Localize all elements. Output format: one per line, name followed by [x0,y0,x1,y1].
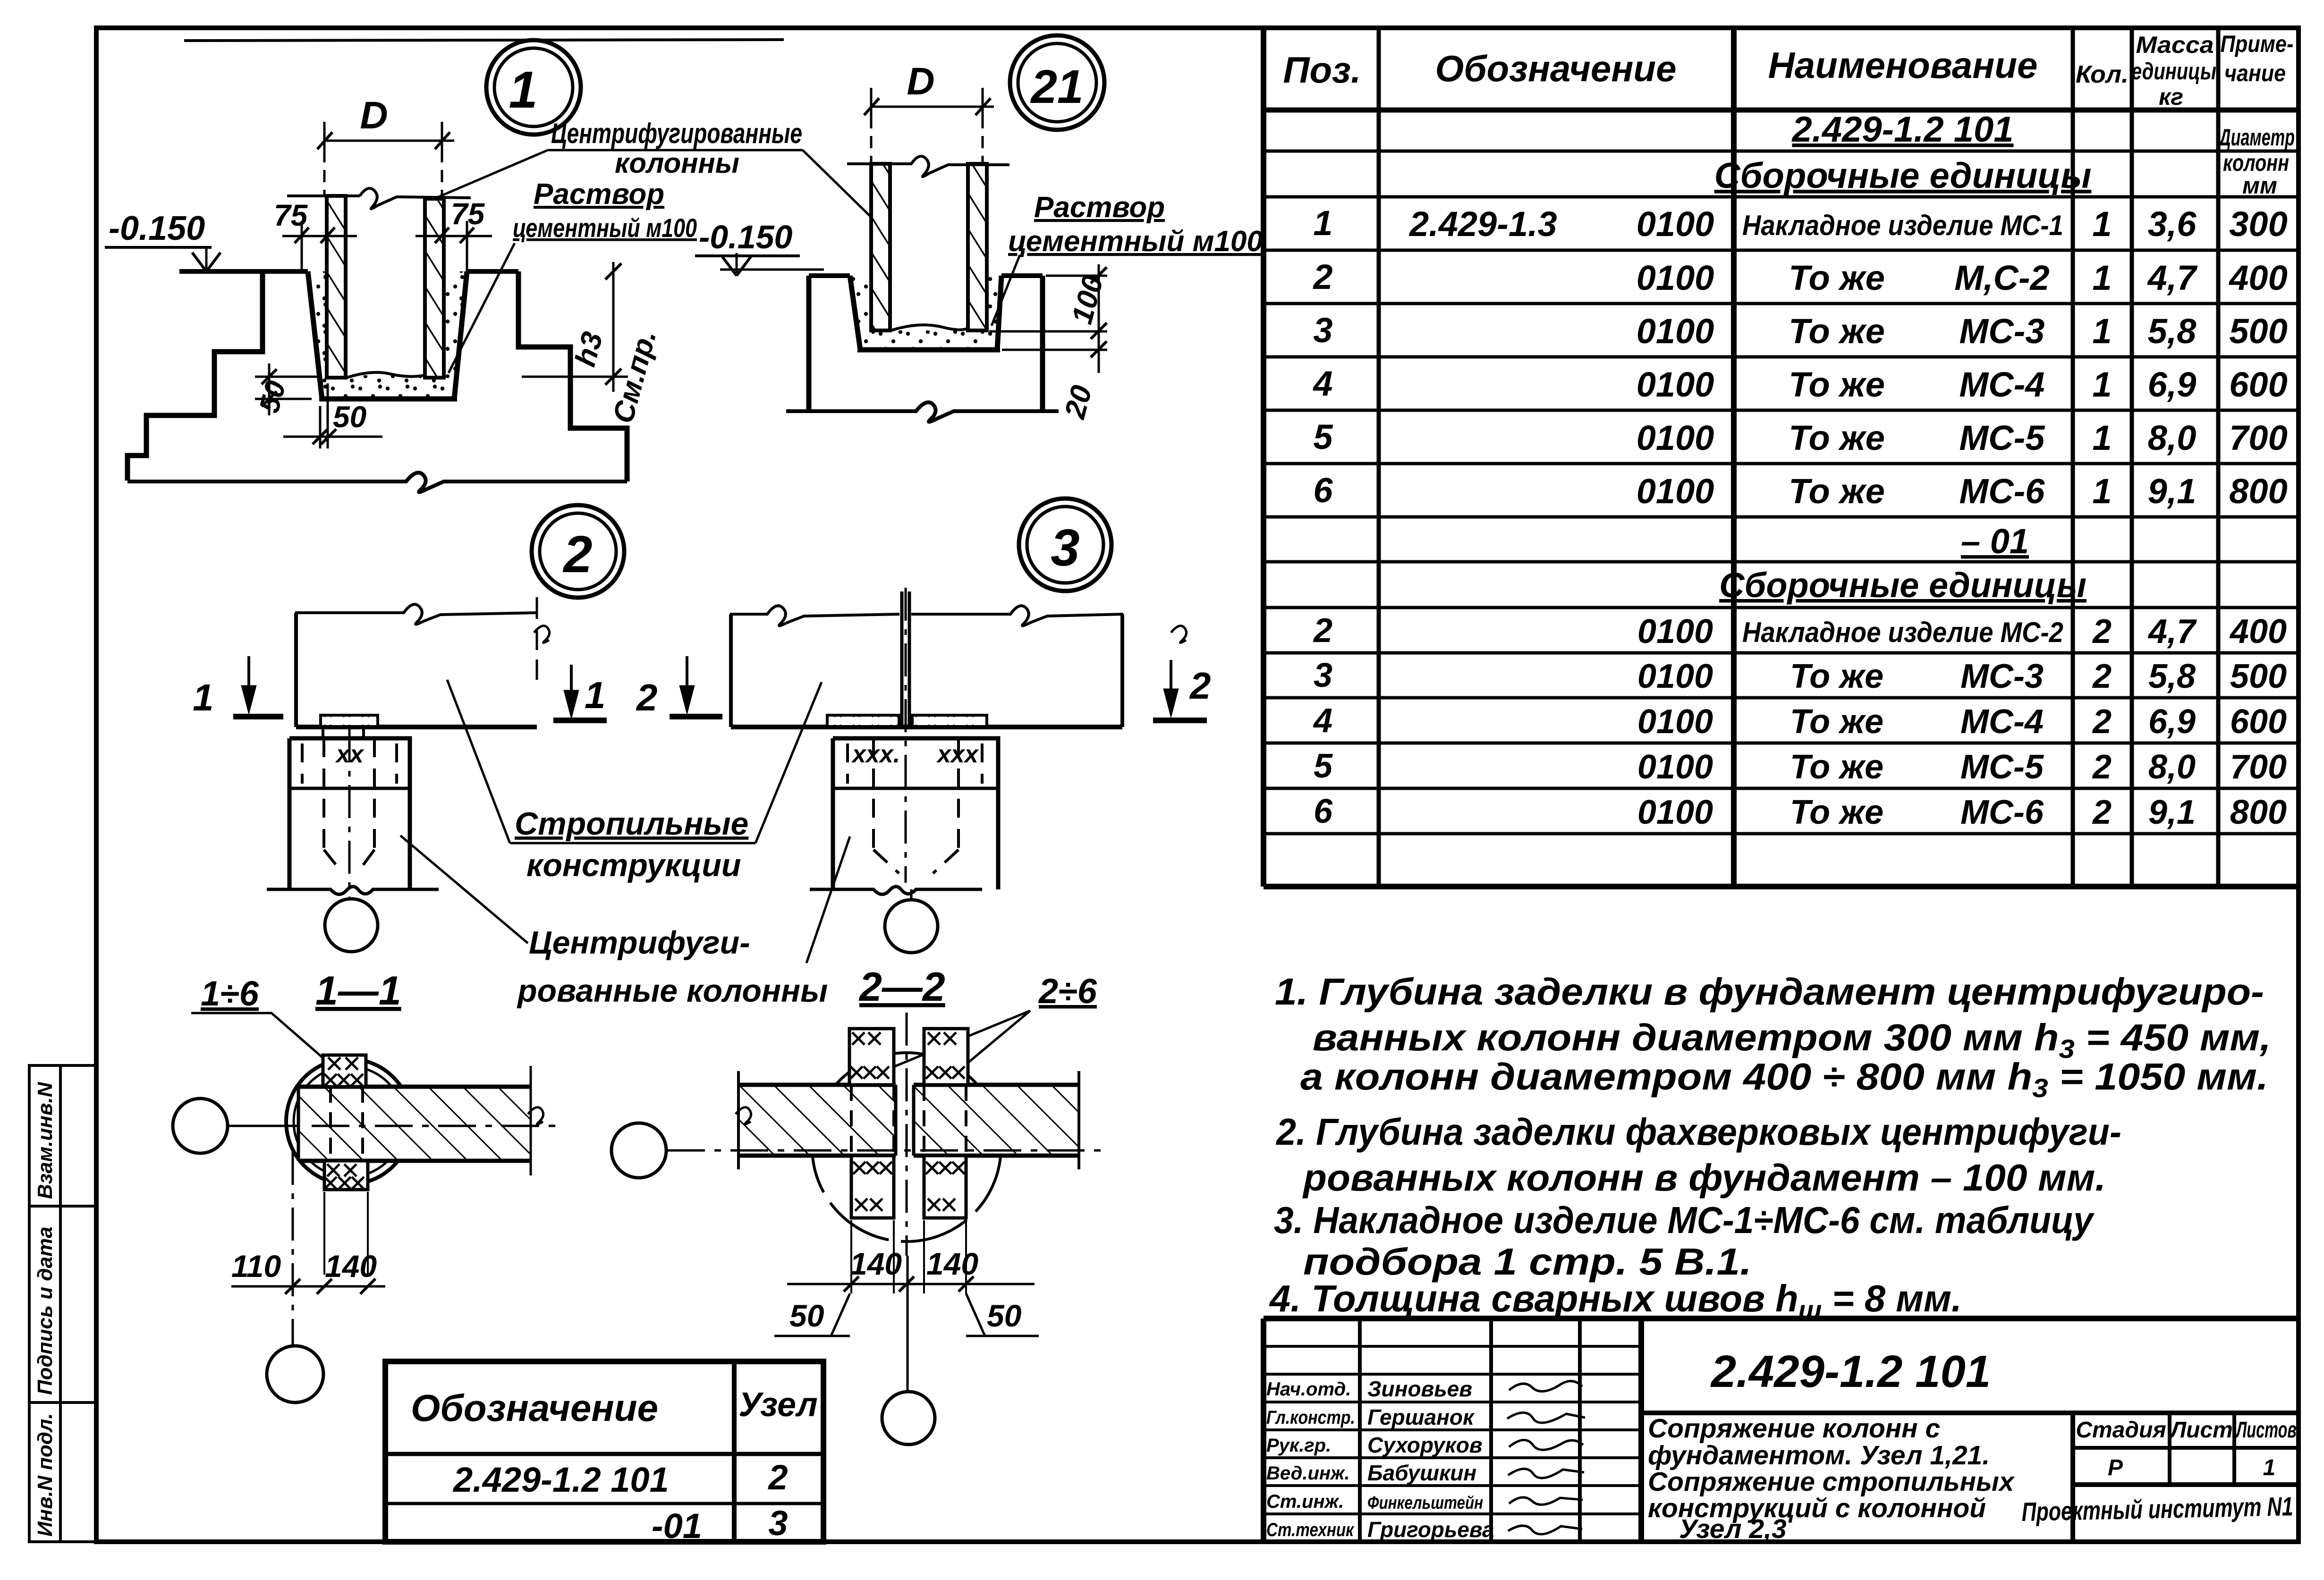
svg-text:9,1: 9,1 [2148,794,2196,831]
svg-text:1. Глубина заделки в фундамент: 1. Глубина заделки в фундамент центрифуг… [1275,971,2264,1013]
column bottom break detail 2 [267,887,439,895]
svg-text:Ст.инж.: Ст.инж. [1266,1491,1344,1512]
svg-text:2: 2 [1313,612,1332,650]
svg-text:Диаметр: Диаметр [2218,124,2295,151]
100 dimension detail 21 [989,264,1107,363]
svg-text:6: 6 [1313,471,1333,510]
svg-text:2.429-1.2 101: 2.429-1.2 101 [1710,1346,1991,1397]
foundation steps left detail 1 [127,272,263,481]
svg-text:100: 100 [1066,272,1110,328]
svg-text:5: 5 [1314,747,1333,785]
svg-text:50: 50 [333,400,366,434]
svg-text:То же: То же [1789,312,1885,351]
mortar wavy top line detail 21 [891,325,967,330]
svg-text:6: 6 [1314,793,1333,830]
svg-text:конструкции: конструкции [526,847,741,883]
plate edge dashed lines section 2-2 [851,1085,966,1156]
svg-text:600: 600 [2229,365,2287,404]
column wall right detail 21 [968,164,987,330]
svg-text:Гершанок: Гершанок [1367,1405,1475,1429]
svg-text:Раствор: Раствор [1034,191,1165,224]
svg-text:5,8: 5,8 [2148,312,2197,351]
leader right Стропильные [755,682,822,843]
svg-text:Масса: Масса [2136,32,2214,58]
75 dimension left detail 1 [282,221,357,271]
svg-text:4,7: 4,7 [2147,258,2198,297]
detail 1 bubble [486,40,581,135]
svg-text:МС-5: МС-5 [1959,418,2046,457]
svg-text:Инв.N подл.: Инв.N подл. [34,1413,57,1537]
svg-text:0100: 0100 [1637,418,1714,457]
svg-text:То же: То же [1790,703,1883,741]
column bottom break detail 3 [810,887,982,895]
column edge dashed lines section 1-1 [331,1087,363,1161]
svg-text:Бабушкин: Бабушкин [1367,1461,1476,1485]
svg-text:МС-3: МС-3 [1960,658,2044,695]
title block stage sheet headers [2076,1418,2297,1480]
svg-text:МС-5: МС-5 [1960,748,2044,786]
svg-text:1: 1 [2092,258,2112,297]
svg-text:1: 1 [2092,204,2112,244]
svg-text:Зиновьев: Зиновьев [1367,1377,1472,1401]
node reference table text [411,1386,818,1546]
svg-text:-0.150: -0.150 [699,219,793,255]
svg-text:8,0: 8,0 [2148,748,2196,786]
svg-text:1: 1 [1313,203,1332,243]
svg-text:Подпись и дата: Подпись и дата [34,1226,57,1395]
foundation bottom break line detail 1 [127,473,627,492]
svg-text:0100: 0100 [1637,472,1714,511]
svg-text:0100: 0100 [1637,365,1714,404]
column top break line detail 1 [287,188,471,209]
svg-text:0100: 0100 [1637,794,1713,831]
svg-text:2: 2 [2092,703,2112,741]
svg-text:20: 20 [1059,382,1099,422]
column wall left detail 21 [871,164,890,330]
foundation right edge detail 21 [1040,276,1045,411]
centerline to bubble section 1-1 [292,1152,294,1344]
svg-text:-01: -01 [652,1506,702,1546]
leader right колонны [806,836,850,963]
svg-text:1: 1 [2092,472,2112,511]
svg-text:фундаментом. Узел 1,21.: фундаментом. Узел 1,21. [1648,1440,1990,1470]
svg-text:рованных колонн в фундамент –: рованных колонн в фундамент – 100 мм. [1302,1157,2106,1199]
svg-text:колонны: колонны [615,147,739,179]
svg-text:Сопряжение колонн с: Сопряжение колонн с [1648,1413,1940,1444]
node reference table grid [385,1361,823,1542]
column circle section 2-2 [812,1053,1001,1242]
svg-text:2: 2 [636,676,658,718]
plate ribs detail 2 [322,727,324,738]
svg-text:5: 5 [1313,417,1333,456]
svg-text:4,7: 4,7 [2147,613,2197,651]
svg-text:0100: 0100 [1637,204,1714,244]
specification table header text [1283,44,2129,91]
svg-text:– 01: – 01 [1961,522,2029,561]
svg-text:То же: То же [1789,258,1885,297]
svg-text:Центрифуги-: Центрифуги- [529,925,750,961]
svg-text:Сборочные единицы: Сборочные единицы [1719,566,2087,605]
svg-text:подбора 1 стр. 5 В.1.: подбора 1 стр. 5 В.1. [1303,1241,1752,1283]
support plate left detail 3 [827,715,899,727]
leader 2-6 section 2-2 [882,1011,1030,1072]
truss left edge detail 2 [294,613,298,727]
foundation steps right detail 1 [518,271,627,482]
svg-text:Нач.отд.: Нач.отд. [1266,1379,1351,1400]
svg-text:Стадия: Стадия [2076,1418,2166,1443]
title block names [1367,1377,1494,1542]
beam outline section 1-1 [298,1066,543,1175]
leader to detail 1 column [435,150,548,198]
socket outline detail 1 [308,271,467,399]
svg-text:21: 21 [1030,60,1083,113]
column top break line detail 21 [847,156,1009,177]
svg-text:800: 800 [2230,794,2287,831]
leader Раствор detail 21 [992,255,1020,326]
svg-text:1: 1 [509,61,537,119]
plate top-left section 2-2 [849,1029,894,1085]
svg-text:Кол.: Кол. [2076,61,2129,88]
svg-text:400: 400 [2228,258,2287,297]
truss top edge detail 3 [730,606,1123,625]
D dimension detail 1 [317,122,454,196]
svg-text:75: 75 [274,198,308,232]
svg-text:То же: То же [1790,794,1883,831]
75 dimension right detail 1 [416,221,492,271]
svg-text:4: 4 [1313,702,1332,740]
specification table rows section 2 [1313,612,2287,831]
svg-text:0100: 0100 [1637,613,1713,651]
svg-text:1: 1 [2092,418,2112,457]
svg-text:2.429-1.3: 2.429-1.3 [1408,204,1557,244]
svg-text:Финкельштейн: Финкельштейн [1367,1493,1483,1513]
svg-text:110: 110 [231,1249,281,1284]
svg-text:1: 1 [2092,365,2112,404]
svg-text:2: 2 [767,1458,788,1497]
svg-text:Накладное изделие МС-1: Накладное изделие МС-1 [1742,210,2063,241]
svg-text:Наименование: Наименование [1768,44,2038,86]
section mark 1 left detail 2 [233,656,283,717]
svg-text:50: 50 [789,1298,824,1333]
specification table rows section 1 [1312,203,2287,511]
svg-text:единицы: единицы [2131,58,2216,84]
h3 dimension detail 1 [522,262,628,392]
dim 50 50 section 2-2 [774,1293,1039,1336]
svg-text:То же: То же [1789,365,1885,404]
svg-text:2—2: 2—2 [858,964,945,1010]
svg-text:4: 4 [1312,364,1332,403]
level mark -0.150 right detail 21 [695,219,824,276]
vertical centerline section 2-2 [906,1013,908,1256]
svg-text:600: 600 [2230,703,2287,741]
svg-text:3,6: 3,6 [2148,204,2197,244]
svg-text:Листов: Листов [2235,1418,2297,1443]
svg-text:5,8: 5,8 [2148,658,2196,695]
leader left Стропильные [447,680,510,843]
svg-text:Раствор: Раствор [534,178,664,211]
beam centerline section 2-2 [667,1149,1101,1152]
underline Центрифугированные detail 1 [548,149,803,152]
svg-text:2: 2 [2092,613,2112,651]
svg-text:Сборочные единицы: Сборочные единицы [1714,156,2092,196]
svg-text:Накладное изделие МС-2: Накладное изделие МС-2 [1742,617,2063,648]
splice plates vertical detail 3 [902,591,909,727]
svg-text:2÷6: 2÷6 [1038,972,1097,1011]
ground line right detail 21 [1001,273,1043,278]
plate top section 1-1 [323,1055,366,1087]
svg-text:Вед.инж.: Вед.инж. [1266,1463,1350,1484]
svg-text:500: 500 [2229,312,2287,351]
beam centerline section 1-1 [312,1125,562,1127]
foundation left edge detail 21 [806,276,812,411]
column inner dashed lines detail 3 [848,738,982,873]
svg-text:Лист: Лист [2169,1418,2233,1443]
D dimension detail 21 [864,88,994,164]
truss top edge detail 2 [295,604,537,624]
svg-text:0100: 0100 [1637,258,1714,297]
svg-text:0100: 0100 [1637,748,1713,786]
svg-text:Ст.техник: Ст.техник [1266,1520,1354,1540]
beam right section 2-2 [914,1085,1079,1156]
svg-text:2: 2 [562,525,592,583]
svg-text:2: 2 [1312,257,1332,296]
svg-text:9,1: 9,1 [2148,472,2197,511]
svg-text:h3: h3 [569,329,609,370]
ground line right detail 1 [467,269,518,274]
title block grid [1264,1318,2299,1542]
leader 1-6 section 1-1 [191,1013,331,1065]
svg-text:6,9: 6,9 [2148,365,2197,404]
svg-text:3: 3 [1313,311,1332,350]
svg-text:МС-4: МС-4 [1959,365,2045,404]
svg-text:500: 500 [2230,658,2287,695]
svg-text:xxx: xxx [936,741,979,768]
svg-text:Взам.инв.N: Взам.инв.N [34,1081,57,1199]
truss right edge detail 3 [1120,614,1124,727]
leader to detail 21 column [803,150,870,216]
socket outline detail 21 [850,276,1001,350]
column cap joint line detail 2 [289,787,410,790]
svg-text:1: 1 [585,674,606,716]
grid bubble detail 2 [325,899,378,952]
svg-text:1: 1 [2263,1455,2276,1480]
svg-text:Узел: Узел [738,1386,818,1424]
svg-text:50: 50 [987,1298,1022,1333]
svg-text:8,0: 8,0 [2148,418,2197,457]
svg-text:То же: То же [1790,748,1883,786]
svg-text:М,С-2: М,С-2 [1954,258,2049,297]
svg-text:Стропильные: Стропильные [515,806,748,842]
svg-text:Сопряжение стропильных: Сопряжение стропильных [1648,1467,2015,1497]
svg-text:То же: То же [1789,472,1885,511]
50 vertical dimension detail 1 [255,363,321,415]
svg-text:а колонн диаметром 400 ÷ 800 м: а колонн диаметром 400 ÷ 800 мм h3 = 105… [1300,1056,2268,1103]
foundation bottom break line detail 21 [786,402,1059,422]
plate bottom-right section 2-2 [924,1156,966,1218]
svg-text:МС-3: МС-3 [1959,312,2045,351]
svg-text:Григорьева: Григорьева [1367,1517,1494,1542]
ground line left detail 1 [179,269,308,274]
grid bubble bottom section 1-1 [267,1346,323,1403]
svg-text:3: 3 [1314,657,1332,694]
grid bubble left section 1-1 [173,1098,228,1153]
column cap joint line detail 3 [833,787,998,790]
svg-text:Поз.: Поз. [1283,49,1361,91]
mortar socket fill detail 1 [308,271,467,399]
truss bottom edge detail 2 [296,725,537,729]
grid bubble bottom section 2-2 [882,1392,935,1445]
svg-text:МС-6: МС-6 [1960,794,2044,831]
support plate right detail 3 [912,715,987,727]
svg-text:140: 140 [850,1246,902,1281]
svg-text:xxx.: xxx. [851,741,900,768]
shared label Стропильные конструкции [447,680,822,883]
svg-text:3: 3 [768,1504,788,1543]
svg-text:Сухоруков: Сухоруков [1367,1433,1483,1457]
svg-text:2: 2 [2092,794,2112,831]
column centerline detail 3 [905,588,907,883]
specification table -01 section titles [1719,522,2087,605]
svg-text:6,9: 6,9 [2148,703,2196,741]
50 horizontal dimension detail 1 [283,383,382,448]
svg-text:чание: чание [2224,60,2286,86]
column inner dashed lines detail 2 [302,738,397,873]
svg-text:Р: Р [2108,1455,2123,1480]
extension lines section 2-2 [851,1220,966,1293]
column centerline detail 2 [348,729,351,897]
section mark 1 right detail 2 [534,597,607,720]
svg-text:То же: То же [1790,658,1883,695]
left stamp strip boxes [29,1065,96,1542]
title block description [1648,1413,2015,1544]
dim 110 140 section 1-1 [231,1279,385,1294]
column lines [1377,28,1381,887]
svg-text:цементный м100: цементный м100 [513,213,697,243]
leader left колонны [400,836,528,943]
svg-text:мм: мм [2242,172,2277,199]
svg-text:Гл.констр.: Гл.констр. [1266,1407,1355,1428]
svg-text:140: 140 [926,1246,978,1281]
table outer [1261,28,1266,887]
truss bottom edge detail 3 [731,725,1122,729]
svg-text:75: 75 [451,197,485,231]
svg-text:1—1: 1—1 [315,968,401,1014]
svg-text:3. Накладное изделие МС-1÷МС-6: 3. Накладное изделие МС-1÷МС-6 см. табли… [1274,1199,2095,1241]
svg-text:цементный м100: цементный м100 [1008,225,1263,258]
svg-text:Проектный институт N1: Проектный институт N1 [2021,1491,2293,1527]
svg-text:1: 1 [193,676,214,718]
svg-text:Обозначение: Обозначение [1435,48,1677,89]
column wall right detail 1 [425,199,444,378]
svg-text:300: 300 [2229,204,2287,244]
svg-text:140: 140 [325,1249,377,1284]
truss left edge detail 3 [729,614,733,727]
svg-text:2: 2 [2092,748,2112,786]
svg-text:400: 400 [2229,613,2287,651]
plate bottom section 1-1 [324,1161,368,1190]
svg-text:Приме-: Приме- [2221,31,2294,57]
specification table grid [1264,28,2299,887]
grid bubble detail 3 [885,900,938,953]
header bottom [1264,108,2299,113]
section mark 2 left detail 3 [670,656,722,717]
svg-text:700: 700 [2230,748,2287,786]
svg-text:50: 50 [253,378,292,416]
beam left section 2-2 [738,1085,896,1156]
mortar socket fill detail 21 [850,276,1001,350]
plate top-right section 2-2 [924,1029,968,1085]
support plate with welds detail 2 [321,715,378,727]
specification table section titles [1714,110,2092,196]
row lines section 1 [1264,150,2299,153]
column wall left detail 1 [327,196,346,378]
svg-text:2: 2 [1189,665,1211,707]
svg-text:0100: 0100 [1637,658,1713,695]
svg-text:1÷6: 1÷6 [201,974,259,1013]
plate bottom-left section 2-2 [851,1156,894,1218]
bubble axis line section 1-1 [228,1125,302,1127]
leader Раствор detail 1 [449,243,515,373]
section mark 2 right detail 3 [1153,626,1207,720]
svg-text:рованные колонны: рованные колонны [517,973,828,1009]
svg-text:2.429-1.2 101: 2.429-1.2 101 [452,1460,669,1499]
svg-text:D: D [360,94,388,137]
svg-text:Центрифугированные: Центрифугированные [551,118,802,149]
svg-text:-0.150: -0.150 [109,210,205,247]
svg-text:МС-4: МС-4 [1960,703,2044,741]
signatures [1507,1381,1585,1534]
dim 140 140 section 2-2 [787,1276,1035,1292]
svg-text:700: 700 [2229,418,2287,457]
svg-text:То же: То же [1789,418,1885,457]
svg-text:800: 800 [2229,472,2287,511]
svg-text:3: 3 [1051,519,1079,577]
notes text block [1269,971,2271,1325]
svg-text:2.429-1.2 101: 2.429-1.2 101 [1791,110,2013,150]
beam hatched section 1-1 [298,1087,531,1161]
column outline detail 3 [833,738,998,889]
svg-text:МС-6: МС-6 [1959,472,2045,511]
left stamp strip rotated labels [34,1081,57,1537]
grid bubble left section 2-2 [611,1123,666,1178]
svg-text:2. Глубина заделки фахверковых: 2. Глубина заделки фахверковых центрифуг… [1275,1111,2121,1153]
mortar wavy top line detail 1 [347,372,424,378]
title block role labels [1266,1379,1355,1540]
svg-text:D: D [907,60,934,103]
shared label Центрифугированные колонны [400,836,850,1009]
svg-text:0100: 0100 [1637,312,1714,351]
svg-text:кг: кг [2159,84,2183,110]
svg-text:Обозначение: Обозначение [411,1387,658,1429]
20 dimension detail 21 [1002,331,1107,373]
svg-text:2: 2 [2092,658,2112,695]
column circle section 1-1 [286,1059,412,1184]
svg-text:Рук.гр.: Рук.гр. [1266,1435,1331,1456]
svg-text:Узел 2,3: Узел 2,3 [1679,1514,1787,1544]
svg-text:0100: 0100 [1637,703,1713,741]
column outline detail 2 [289,738,410,889]
extension lines section 1-1 [324,1192,368,1275]
svg-text:1: 1 [2092,312,2112,351]
level mark -0.150 left detail 1 [105,210,221,271]
ground line left detail 21 [809,273,850,278]
